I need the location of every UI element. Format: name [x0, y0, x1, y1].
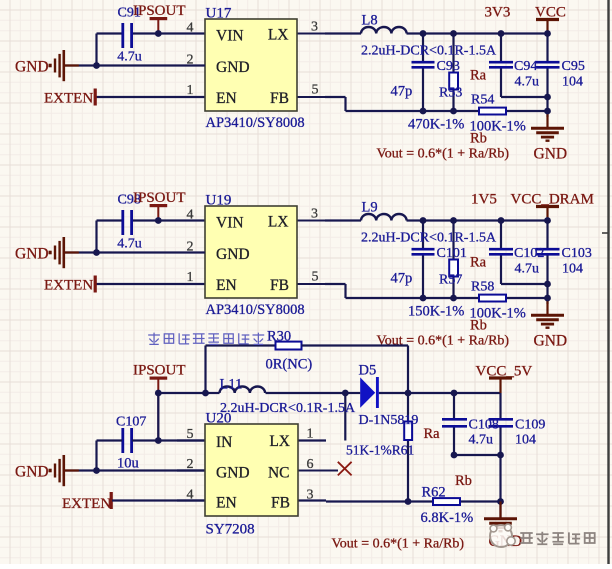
svg-text:2.2uH-DCR<0.1R-1.5A: 2.2uH-DCR<0.1R-1.5A [361, 231, 497, 246]
svg-text:3: 3 [311, 20, 318, 35]
svg-text:C95: C95 [562, 59, 585, 74]
svg-text:R57: R57 [439, 273, 462, 288]
svg-text:6: 6 [307, 457, 314, 472]
svg-text:L11: L11 [220, 377, 243, 393]
svg-text:4.7u: 4.7u [515, 75, 540, 90]
svg-text:R62: R62 [422, 485, 446, 501]
svg-text:VIN: VIN [216, 28, 244, 45]
svg-text:4.7u: 4.7u [515, 262, 540, 277]
svg-text:4.7u: 4.7u [117, 50, 142, 65]
svg-text:D-1N5819: D-1N5819 [359, 413, 419, 428]
svg-text:47p: 47p [391, 84, 413, 100]
svg-text:GND: GND [534, 146, 568, 163]
svg-text:3: 3 [311, 207, 318, 222]
svg-text:FB: FB [270, 277, 289, 294]
svg-text:R53: R53 [439, 86, 462, 101]
svg-text:2.2uH-DCR<0.1R-1.5A: 2.2uH-DCR<0.1R-1.5A [361, 44, 497, 59]
svg-text:51K-1%R61: 51K-1%R61 [346, 443, 414, 458]
svg-text:Ra: Ra [424, 426, 441, 442]
svg-text:LX: LX [269, 433, 290, 450]
svg-text:10u: 10u [117, 456, 139, 472]
svg-text:104: 104 [562, 262, 583, 277]
svg-text:5: 5 [312, 270, 319, 285]
svg-text:5: 5 [187, 427, 194, 442]
svg-text:GND: GND [216, 465, 250, 482]
svg-text:IPSOUT: IPSOUT [133, 190, 186, 206]
svg-text:47p: 47p [391, 271, 413, 287]
svg-text:6.8K-1%: 6.8K-1% [421, 510, 474, 526]
svg-text:SY7208: SY7208 [206, 522, 255, 538]
svg-text:Ra: Ra [470, 68, 487, 84]
svg-text:1V5: 1V5 [471, 192, 497, 208]
svg-text:GND: GND [15, 246, 49, 263]
svg-text:GND: GND [15, 464, 49, 481]
svg-text:IN: IN [216, 434, 232, 451]
svg-text:4: 4 [187, 488, 194, 503]
svg-text:0R(NC): 0R(NC) [266, 357, 313, 373]
svg-text:2: 2 [187, 53, 194, 68]
svg-text:VCC_DRAM: VCC_DRAM [511, 192, 594, 208]
svg-text:Ra: Ra [470, 255, 487, 271]
svg-text:4: 4 [187, 208, 194, 223]
svg-text:Vout = 0.6*(1 + Ra/Rb): Vout = 0.6*(1 + Ra/Rb) [332, 537, 465, 552]
svg-text:2.2uH-DCR<0.1R-1.5A: 2.2uH-DCR<0.1R-1.5A [220, 401, 356, 416]
svg-text:Rb: Rb [455, 473, 472, 489]
svg-text:Rb: Rb [470, 318, 487, 334]
svg-text:2: 2 [187, 240, 194, 255]
svg-text:EXTEN: EXTEN [44, 277, 93, 293]
svg-text:GND: GND [534, 333, 568, 350]
svg-text:C101: C101 [437, 246, 467, 261]
svg-text:R54: R54 [471, 93, 494, 108]
svg-text:C93: C93 [437, 59, 460, 74]
svg-text:EXTEN: EXTEN [44, 90, 93, 106]
svg-text:4.7u: 4.7u [117, 237, 142, 252]
svg-text:U19: U19 [206, 193, 232, 209]
svg-text:1: 1 [187, 270, 194, 285]
svg-text:C108: C108 [469, 418, 499, 433]
svg-text:104: 104 [515, 433, 536, 448]
svg-text:2: 2 [187, 457, 194, 472]
svg-text:C94: C94 [514, 59, 537, 74]
svg-text:EN: EN [216, 495, 237, 512]
svg-text:EXTEN: EXTEN [62, 496, 111, 512]
svg-text:3: 3 [307, 488, 314, 503]
svg-text:1: 1 [187, 83, 194, 98]
svg-text:C107: C107 [116, 415, 146, 430]
svg-text:L8: L8 [362, 13, 378, 29]
svg-text:IPSOUT: IPSOUT [133, 3, 186, 19]
svg-text:LX: LX [268, 214, 289, 231]
svg-text:L9: L9 [362, 200, 378, 216]
svg-text:Rb: Rb [470, 131, 487, 147]
svg-text:NC: NC [268, 465, 290, 482]
svg-text:R58: R58 [471, 280, 494, 295]
svg-text:R30: R30 [267, 329, 291, 345]
svg-text:EN: EN [216, 277, 237, 294]
svg-text:150K-1%: 150K-1% [408, 304, 464, 320]
svg-text:4.7u: 4.7u [469, 433, 494, 448]
svg-text:AP3410/SY8008: AP3410/SY8008 [206, 302, 305, 318]
svg-text:470K-1%: 470K-1% [408, 117, 464, 133]
svg-text:FB: FB [270, 90, 289, 107]
svg-text:U17: U17 [206, 6, 232, 22]
svg-text:C109: C109 [515, 418, 545, 433]
svg-text:Vout = 0.6*(1 + Ra/Rb): Vout = 0.6*(1 + Ra/Rb) [377, 147, 510, 162]
svg-text:1: 1 [307, 427, 314, 442]
svg-text:D5: D5 [359, 363, 377, 379]
svg-text:GND: GND [15, 59, 49, 76]
svg-text:VCC: VCC [535, 5, 566, 21]
svg-text:C102: C102 [514, 246, 544, 261]
svg-text:4: 4 [187, 21, 194, 36]
svg-text:GND: GND [216, 59, 250, 76]
svg-text:104: 104 [562, 75, 583, 90]
svg-text:LX: LX [268, 27, 289, 44]
svg-text:3V3: 3V3 [485, 5, 511, 21]
svg-text:EN: EN [216, 90, 237, 107]
svg-text:AP3410/SY8008: AP3410/SY8008 [206, 115, 305, 131]
svg-text:IPSOUT: IPSOUT [133, 363, 186, 379]
svg-text:FB: FB [271, 495, 290, 512]
svg-text:VIN: VIN [216, 215, 244, 232]
svg-text:GND: GND [216, 246, 250, 263]
svg-text:5: 5 [312, 83, 319, 98]
svg-text:C103: C103 [562, 246, 592, 261]
